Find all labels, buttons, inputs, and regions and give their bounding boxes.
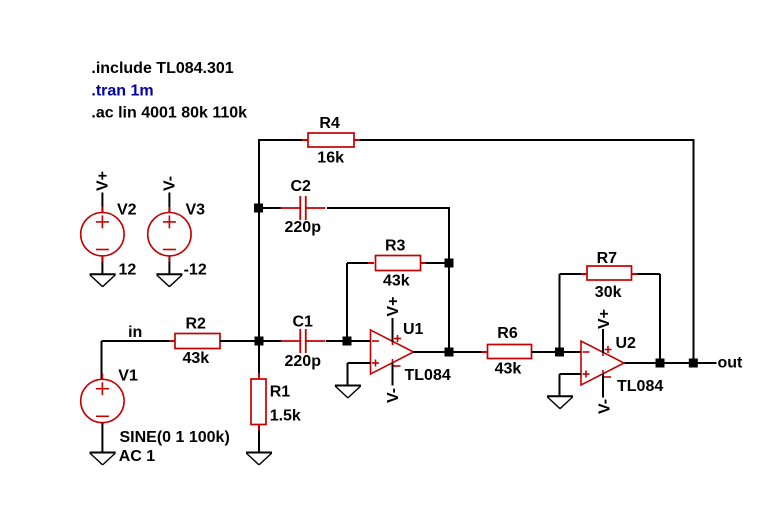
svg-text:AC 1: AC 1	[119, 448, 156, 465]
svg-text:V3: V3	[186, 202, 206, 219]
ground V3	[156, 273, 182, 275]
resistor R6 body	[488, 345, 532, 359]
wire U2 V+ pin	[602, 329, 604, 353]
wire C2 left lead	[259, 207, 281, 209]
svg-text:R6: R6	[497, 325, 518, 342]
svg-text:V+: V+	[94, 171, 111, 191]
ground U2	[547, 395, 573, 397]
wire red stub R4 right	[354, 139, 360, 141]
wire V3 bottom	[168, 256, 170, 274]
wire V2 top	[101, 193, 103, 214]
wire red stub R1 top	[258, 373, 260, 379]
junction R4 to out	[689, 359, 698, 368]
wire R6 right to U2	[532, 351, 582, 353]
ground V2	[90, 273, 116, 275]
svg-text:30k: 30k	[595, 284, 622, 301]
wire red stub R2 left	[169, 340, 175, 342]
wire R7 right vertical	[659, 274, 661, 363]
wire U2 +in horizontal	[560, 373, 582, 375]
resistor R7 body	[587, 266, 632, 280]
wire R4 left lead	[259, 139, 308, 141]
wire R3 left lead	[347, 262, 374, 264]
junction R3 right	[445, 259, 454, 268]
svg-text:-12: -12	[184, 262, 207, 279]
svg-text:V-: V-	[596, 399, 613, 414]
op-amp U2	[581, 341, 624, 385]
wire R4 right lead to right vertical	[354, 139, 695, 141]
wire R3 right lead	[420, 262, 449, 264]
wire R3 left vertical	[346, 263, 348, 341]
resistor R4 body	[308, 133, 354, 147]
wire red stub R1 bottom	[258, 425, 260, 431]
svg-text:R7: R7	[597, 250, 618, 267]
junction U2 inverting input	[555, 348, 564, 357]
wire red stub R7 left	[581, 273, 587, 275]
svg-text:R4: R4	[319, 115, 340, 132]
wire U1 +in horizontal	[348, 362, 371, 364]
wire in rail	[102, 340, 176, 342]
wire R7 left lead	[560, 273, 588, 275]
ground U1	[335, 385, 361, 387]
wire U1 output	[414, 351, 488, 353]
svg-text:V-: V-	[385, 388, 402, 403]
resistor R1 body	[251, 379, 266, 425]
svg-text:V1: V1	[118, 368, 138, 385]
svg-text:V+: V+	[596, 309, 613, 329]
wire C1 right to U1	[326, 340, 371, 342]
svg-text:U2: U2	[616, 335, 637, 352]
capacitor C1	[281, 329, 326, 353]
svg-text:in: in	[128, 324, 142, 341]
wire red stub R7 right	[632, 273, 638, 275]
svg-text:43k: 43k	[495, 361, 522, 378]
wire C2 right lead	[327, 207, 449, 209]
wire red stub R4 left	[302, 139, 308, 141]
svg-text:R1: R1	[270, 384, 291, 401]
wire U1 V- pin	[392, 363, 394, 386]
svg-text:V-: V-	[162, 176, 179, 191]
wire V2 bottom	[101, 256, 103, 274]
svg-text:.ac lin 4001 80k 110k: .ac lin 4001 80k 110k	[91, 105, 247, 122]
op-amp U1	[371, 330, 414, 374]
svg-text:V2: V2	[117, 202, 137, 219]
junction C2 tap	[254, 204, 263, 213]
svg-text:C2: C2	[291, 178, 312, 195]
ground V1	[90, 452, 116, 454]
resistor R3 body	[376, 256, 421, 271]
svg-text:1.5k: 1.5k	[270, 408, 301, 425]
svg-text:220p: 220p	[285, 353, 322, 370]
wire left vertical (R4/C2 to input node)	[258, 139, 260, 341]
wire R7 right lead	[632, 273, 661, 275]
junction U1 output node	[445, 348, 454, 357]
svg-text:C1: C1	[293, 314, 314, 331]
svg-text:12: 12	[119, 262, 137, 279]
wire red stub R3 left	[368, 262, 374, 264]
wire red stub R2 right	[220, 340, 226, 342]
svg-text:.tran 1m: .tran 1m	[91, 83, 153, 100]
wire C2 vertical down to U1 out	[448, 207, 450, 352]
svg-text:R3: R3	[385, 238, 406, 255]
voltage source V1	[81, 373, 124, 428]
svg-text:R2: R2	[186, 316, 207, 333]
voltage source V2	[81, 207, 124, 262]
svg-text:U1: U1	[403, 321, 424, 338]
svg-text:TL084: TL084	[405, 367, 451, 384]
wire red stub R6 right	[532, 351, 538, 353]
wire V1 bottom	[101, 423, 103, 453]
wire U2 V- pin	[602, 374, 604, 398]
svg-text:SINE(0 1 100k): SINE(0 1 100k)	[120, 429, 230, 446]
svg-text:TL084: TL084	[617, 378, 663, 395]
svg-text:43k: 43k	[183, 350, 210, 367]
wire R1 bottom lead	[258, 425, 260, 453]
svg-text:220p: 220p	[285, 219, 322, 236]
resistor R2 body	[175, 334, 220, 349]
wire R1 top lead	[258, 341, 260, 379]
wire right vertical (R4 to out)	[693, 139, 695, 363]
svg-text:out: out	[718, 355, 744, 372]
svg-text:.include TL084.301: .include TL084.301	[91, 60, 233, 77]
svg-text:16k: 16k	[317, 150, 344, 167]
wire R2 right lead	[220, 340, 259, 342]
wire red stub R6 left	[482, 351, 488, 353]
wire U1 +in vertical	[347, 363, 349, 385]
ground R1	[246, 452, 272, 454]
wire C1 left lead	[259, 340, 282, 342]
wire U1 V+ pin	[392, 318, 394, 342]
wire V1 riser	[101, 341, 103, 379]
wire R7 left vertical	[559, 274, 561, 352]
junction R3 to input wire	[343, 337, 352, 346]
wire red stub R3 right	[420, 262, 426, 264]
voltage source V3	[148, 207, 191, 262]
svg-text:43k: 43k	[383, 273, 410, 290]
svg-text:V+: V+	[385, 296, 402, 316]
wire U2 output to out	[625, 362, 717, 364]
junction input node	[255, 337, 264, 346]
wire V3 top	[168, 193, 170, 214]
junction R7 to out	[656, 359, 665, 368]
capacitor C2	[281, 196, 326, 220]
wire U2 +in vertical	[559, 374, 561, 396]
